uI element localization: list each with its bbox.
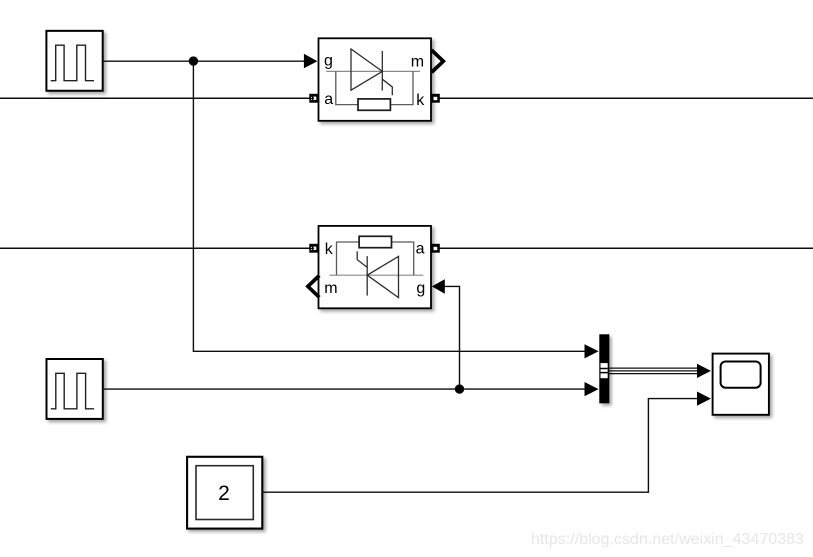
scope block — [713, 354, 769, 415]
thyristor block 1 (Detailed Thyristor) — [319, 38, 432, 121]
constant block value 2 — [187, 457, 262, 529]
svg-text:g: g — [416, 280, 425, 297]
conduction line — [326, 70, 420, 72]
svg-text:a: a — [416, 240, 425, 257]
cathode bar (flipped) — [366, 256, 368, 296]
node junction J1 — [189, 56, 198, 65]
wire: long line B right — [440, 247, 813, 249]
snubber path left — [336, 71, 358, 104]
pulse generator 2 — [47, 359, 103, 419]
svg-text:https://blog.csdn.net/weixin_4: https://blog.csdn.net/weixin_43470383 — [531, 531, 804, 548]
node junction J2 — [455, 384, 464, 393]
wire: constant to scope input 2 — [263, 399, 698, 493]
gate lead (flipped) — [357, 251, 367, 267]
arrowhead into thyristor2 g input — [432, 279, 445, 294]
port square: thyristor2 a output — [431, 244, 440, 253]
svg-text:a: a — [324, 91, 333, 108]
arrowhead into mux input 2 — [585, 382, 599, 396]
arrowhead into thyristor1 g input — [304, 54, 318, 69]
svg-text:m: m — [324, 280, 337, 297]
wire: pulse2 to mux input 2 — [103, 388, 586, 390]
wire: mux output triple line to scope — [608, 368, 699, 374]
svg-text:m: m — [411, 54, 424, 71]
wire: thyristor2 g to junction J2 — [445, 286, 460, 389]
resistor R snubber (flipped) — [359, 236, 391, 247]
arrowhead into mux input 1 — [585, 344, 599, 358]
snubber path right — [390, 71, 413, 104]
cathode bar — [381, 51, 383, 91]
wire: long line A right — [440, 97, 813, 99]
output chevron: thyristor2 m — [308, 276, 319, 298]
conduction line (flipped) — [330, 274, 424, 276]
svg-text:g: g — [324, 53, 333, 70]
port square: thyristor1 a input — [309, 94, 318, 103]
resistor R snubber — [358, 99, 390, 110]
output chevron: thyristor1 m — [432, 50, 444, 72]
wire: J1 down and right to mux input 1 — [193, 61, 586, 351]
wire: long line B left (y=248.2) — [0, 247, 310, 249]
svg-text:k: k — [325, 241, 334, 258]
svg-text:2: 2 — [218, 482, 230, 505]
thyristor triangle (flipped) — [367, 256, 398, 297]
wire: long line A left (y=98.2) — [0, 97, 310, 99]
wire: pulse1 to thyristor1 g — [103, 60, 305, 62]
gate lead — [382, 79, 392, 95]
mux block — [599, 334, 609, 403]
port square: thyristor1 k output — [431, 94, 440, 103]
svg-text:k: k — [416, 92, 425, 109]
port square: thyristor2 k input — [309, 244, 318, 253]
thyristor triangle — [351, 49, 382, 90]
snubber path left (flipped) — [392, 242, 414, 275]
arrowhead into scope input 2 — [697, 392, 711, 406]
thyristor block 2 (flipped 180) — [319, 226, 432, 308]
snubber path right (flipped) — [337, 242, 360, 275]
arrowhead into scope input 1 — [697, 364, 711, 378]
pulse generator 1 — [46, 31, 102, 91]
